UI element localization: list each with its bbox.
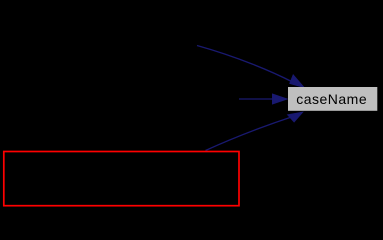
arrowhead 1 xyxy=(290,75,304,88)
edge 1 (top caller to caseName) xyxy=(197,46,293,83)
arrowhead 2 xyxy=(273,94,288,104)
edge 3 (red node to caseName) xyxy=(206,118,291,151)
node caseName (grey box) xyxy=(288,87,377,111)
truncated node (red rectangle) xyxy=(4,152,239,206)
edge 2 (middle caller to caseName) xyxy=(239,98,272,100)
arrowhead 3 xyxy=(288,112,303,122)
svg-text:caseName: caseName xyxy=(296,91,367,107)
